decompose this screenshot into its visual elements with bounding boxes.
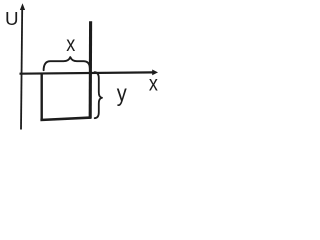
svg-text:y: y (117, 80, 127, 106)
svg-text:x: x (149, 72, 158, 96)
svg-text:U: U (5, 8, 19, 29)
svg-text:x: x (66, 32, 75, 56)
